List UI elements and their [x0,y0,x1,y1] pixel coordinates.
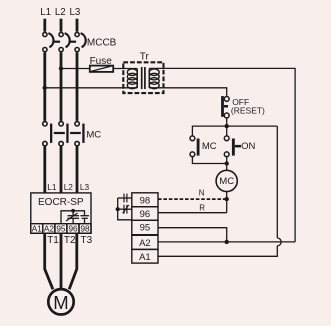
svg-text:L1: L1 [47,182,57,192]
svg-text:L2: L2 [55,7,66,18]
svg-text:T3: T3 [81,235,93,246]
svg-text:T2: T2 [64,235,76,246]
svg-text:Fuse: Fuse [90,56,113,67]
svg-text:A1: A1 [139,252,151,263]
svg-text:L1: L1 [40,7,51,18]
svg-text:A2: A2 [139,238,151,249]
svg-text:L2: L2 [64,182,74,192]
svg-text:(RESET): (RESET) [231,105,265,115]
svg-text:L3: L3 [70,7,81,18]
svg-text:96: 96 [68,225,78,234]
svg-text:MC: MC [86,130,101,141]
svg-text:R: R [199,204,205,213]
svg-text:A2: A2 [44,225,54,234]
svg-text:ON: ON [241,141,255,152]
svg-text:95: 95 [140,223,151,234]
svg-text:MC: MC [219,176,234,187]
svg-text:A1: A1 [32,225,42,234]
svg-text:M: M [53,292,68,313]
svg-text:98: 98 [80,225,90,234]
svg-text:MC: MC [202,141,217,152]
svg-text:L3: L3 [80,182,90,192]
svg-text:96: 96 [140,209,151,220]
svg-text:Tr: Tr [140,52,150,63]
svg-text:95: 95 [56,225,66,234]
svg-text:EOCR-SP: EOCR-SP [38,197,84,208]
svg-text:98: 98 [140,195,151,206]
svg-text:MCCB: MCCB [87,37,117,48]
svg-text:T1: T1 [47,235,59,246]
svg-text:N: N [199,189,205,198]
